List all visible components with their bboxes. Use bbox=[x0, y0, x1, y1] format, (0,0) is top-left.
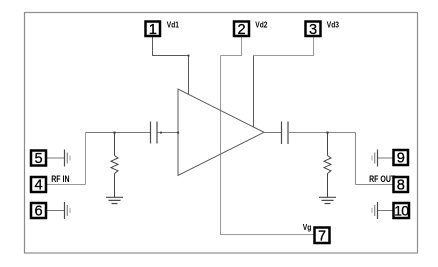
svg-text:7: 7 bbox=[318, 229, 326, 245]
svg-text:RF IN: RF IN bbox=[51, 174, 69, 184]
svg-text:Vd3: Vd3 bbox=[327, 20, 339, 30]
svg-text:9: 9 bbox=[397, 150, 405, 166]
svg-text:4: 4 bbox=[35, 177, 43, 193]
svg-text:2: 2 bbox=[238, 22, 246, 38]
svg-text:Vd1: Vd1 bbox=[167, 20, 179, 30]
svg-text:10: 10 bbox=[394, 202, 409, 218]
svg-text:RF OUT: RF OUT bbox=[369, 174, 395, 184]
svg-text:3: 3 bbox=[309, 22, 317, 38]
svg-text:8: 8 bbox=[397, 177, 405, 193]
svg-text:Vg: Vg bbox=[303, 222, 312, 232]
svg-text:1: 1 bbox=[149, 22, 157, 38]
svg-text:6: 6 bbox=[35, 203, 43, 219]
svg-text:5: 5 bbox=[35, 151, 43, 167]
svg-text:Vd2: Vd2 bbox=[255, 20, 267, 30]
